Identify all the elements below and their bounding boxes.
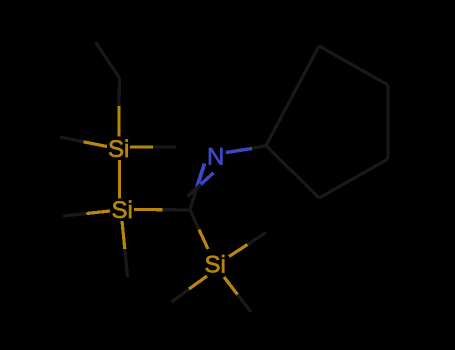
wire: C-Si3 bond (orange half) xyxy=(199,230,208,250)
wire: Si2 left methyl (carbon half) xyxy=(63,214,87,217)
svg-text:Si: Si xyxy=(108,136,129,163)
wire: C-Si3 bond (carbon half) xyxy=(190,210,199,230)
wire: Si3 up-right methyl (carbon half) xyxy=(248,233,267,245)
wire: C=N double bond line B nitrogen half xyxy=(201,173,214,184)
wire: Si2 left methyl (orange half) xyxy=(87,211,111,214)
wire: Si2 down methyl (carbon half) xyxy=(125,249,128,277)
wire: C=N double bond line B carbon half xyxy=(188,184,202,196)
ring: cyclo ring bond 2 xyxy=(319,46,388,85)
wire: Si3 down-right methyl (carbon half) xyxy=(238,295,252,313)
wire: Si3 down-left methyl (orange half) xyxy=(189,276,207,289)
wire: Si1 right methyl (orange half) xyxy=(130,145,153,148)
ring: cyclo ring bond 3 xyxy=(386,85,389,159)
ring: cyclo ring bond 5 xyxy=(266,146,319,199)
wire: Si1-Si2 bond xyxy=(118,160,121,199)
ring: cyclo ring bond 4 xyxy=(319,159,388,198)
wire: Si2-C bond (orange half) xyxy=(134,208,163,211)
wire: Si1 ethyl CH2 bond (carbon half) xyxy=(117,78,121,106)
wire: Si3 up-right methyl (orange half) xyxy=(229,245,248,257)
svg-text:N: N xyxy=(207,144,224,171)
wire: Si1 right methyl (carbon half) xyxy=(153,145,176,148)
wire: C=N double bond line A carbon half xyxy=(190,187,197,210)
wire: Si1 left methyl (orange half) xyxy=(84,142,108,147)
wire: Si3 down-right methyl (orange half) xyxy=(224,277,238,295)
wire: Si2 down methyl (orange half) xyxy=(122,221,125,249)
wire: N-ring bond (carbon half) xyxy=(252,146,266,149)
wire: Si1 ethyl CH2 bond (orange half) xyxy=(117,106,120,137)
ring: cyclo ring bond 1 xyxy=(266,46,319,146)
svg-text:Si: Si xyxy=(205,252,226,279)
wire: N-ring bond (nitrogen half) xyxy=(226,149,252,153)
wire: Si3 down-left methyl (carbon half) xyxy=(172,289,190,302)
wire: Si2-C bond (carbon half) xyxy=(163,208,191,212)
wire: ethyl CH2-CH3 bond xyxy=(96,42,120,78)
wire: Si1 left methyl (carbon half) xyxy=(60,137,84,142)
wire: C=N double bond line A nitrogen half xyxy=(197,164,205,188)
svg-text:Si: Si xyxy=(112,197,133,224)
